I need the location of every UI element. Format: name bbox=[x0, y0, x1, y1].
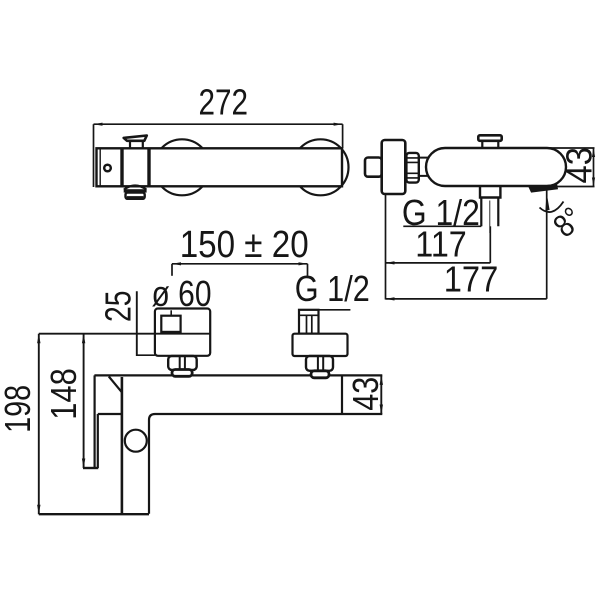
dimension 198 bracket bbox=[39, 334, 149, 515]
body bar top edge bbox=[94, 375, 382, 513]
bar bottom edge left part bbox=[98, 413, 122, 415]
outlet collar bbox=[480, 186, 500, 197]
body capsule bbox=[426, 148, 566, 186]
wall reference line bbox=[385, 195, 387, 300]
dimension 43 bottom bbox=[380, 375, 382, 414]
svg-text:43: 43 bbox=[345, 377, 386, 411]
left mount pipe bbox=[161, 316, 180, 332]
left nut facets bbox=[180, 356, 185, 370]
spout tip bbox=[530, 185, 558, 192]
svg-text:198: 198 bbox=[0, 385, 38, 433]
flange bands bbox=[406, 158, 418, 178]
lever outer edge bbox=[93, 375, 95, 468]
svg-text:148: 148 bbox=[43, 368, 84, 420]
shower pipe left edge bbox=[121, 377, 124, 514]
svg-text:ø 60: ø 60 bbox=[152, 273, 212, 314]
svg-text:G 1/2: G 1/2 bbox=[295, 268, 370, 309]
bar right end bbox=[341, 375, 343, 414]
dimension 43 side bbox=[547, 148, 595, 187]
right pipe bands bbox=[299, 315, 319, 333]
shower pipe right edge bbox=[148, 420, 150, 514]
svg-text:272: 272 bbox=[199, 82, 249, 123]
right nut facets bbox=[318, 356, 323, 371]
diverter knob stem bbox=[130, 141, 143, 148]
arrowheads 272 bbox=[94, 123, 343, 126]
square bottom extension to 25-line bbox=[137, 354, 155, 356]
right mount escutcheon bbox=[293, 334, 348, 356]
escutcheon circle left bbox=[154, 139, 210, 195]
cartridge circle bbox=[125, 430, 147, 452]
divider band left bbox=[120, 148, 123, 186]
outlet cup dark bottom bbox=[127, 196, 144, 199]
body bar bbox=[97, 148, 343, 186]
dimension 272 bbox=[94, 124, 343, 187]
left mount center tick bbox=[170, 310, 172, 316]
G 1/2 leader line side bbox=[403, 225, 481, 227]
dimension 150 +- 20 bbox=[172, 264, 308, 276]
outlet collar arc bbox=[124, 185, 146, 189]
wall flange bbox=[406, 153, 418, 183]
svg-text:25: 25 bbox=[98, 291, 139, 323]
outlet pipe bbox=[481, 198, 498, 227]
flange-body connector bbox=[419, 158, 429, 176]
dimension 117 bbox=[386, 226, 491, 263]
left mount escutcheon square bbox=[155, 309, 210, 356]
G 1/2 leader line bottom bbox=[300, 309, 350, 311]
angle arc 8deg bbox=[540, 202, 564, 213]
lever inner edge bbox=[97, 414, 99, 468]
dimension 25 line bbox=[136, 291, 138, 356]
end cap inner line bbox=[99, 148, 101, 186]
top knob cap bbox=[478, 135, 501, 141]
bar bottom edge right part with corner bbox=[149, 414, 382, 420]
outlet cup bbox=[126, 193, 145, 199]
outlet dark band bbox=[124, 189, 147, 192]
lever root diagonal bbox=[109, 377, 122, 393]
right mount nut bbox=[306, 356, 333, 371]
angle arc arrowhead bbox=[545, 193, 549, 211]
diverter knob cap bbox=[124, 136, 147, 141]
handle body bbox=[382, 140, 406, 194]
dimension 177 bbox=[386, 190, 547, 299]
right mount cap bbox=[311, 371, 329, 378]
svg-text:150 ± 20: 150 ± 20 bbox=[180, 224, 309, 266]
dimension 148 bracket bbox=[83, 334, 98, 468]
arrowheads 148/198 bbox=[37, 334, 85, 515]
handle end knob bbox=[365, 158, 382, 177]
pipe center line bbox=[489, 201, 491, 234]
divider band right bbox=[147, 148, 150, 186]
top knob stem bbox=[482, 141, 498, 148]
svg-text:177: 177 bbox=[444, 259, 499, 300]
wall line bbox=[39, 333, 210, 335]
svg-text:43: 43 bbox=[558, 147, 599, 184]
left mount cap bbox=[172, 370, 192, 377]
set screw hole bbox=[104, 165, 111, 172]
right mount pipe bbox=[299, 310, 319, 334]
escutcheon circle right bbox=[293, 139, 349, 195]
left mount nut bbox=[168, 356, 197, 370]
